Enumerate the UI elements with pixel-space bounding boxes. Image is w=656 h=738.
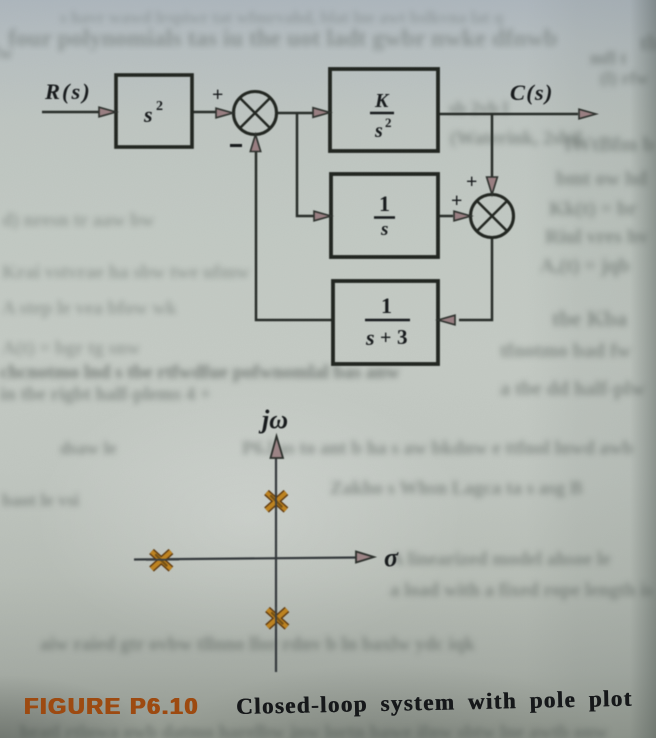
arrow into junction1 bottom (pointing up) [250,135,260,152]
svg-text:2: 2 [385,115,392,130]
svg-text:2: 2 [156,99,163,114]
wire junction1 to K/s2 with branch [276,112,316,115]
summing junction 2 [471,195,514,238]
svg-text:1: 1 [381,293,392,318]
arrow into 1/s [314,211,331,221]
pole plot [134,455,358,672]
pole X on jw axis lower [268,610,288,628]
arrow into junction1 left [216,108,233,118]
svg-text:1: 1 [379,191,390,216]
arrow C(s) output [579,109,596,119]
svg-text:s: s [374,120,383,142]
sigma axis horizontal [134,558,358,560]
svg-text:K: K [374,90,390,112]
block s2 [116,75,192,147]
block K/s2 [330,69,438,151]
wire s2 to junction1 [192,111,217,114]
minus sign junction1 [230,144,242,147]
caption figure number [24,693,199,720]
labels: block diagram text [44,79,554,350]
pole X on sigma axis [152,552,172,570]
caption text [236,686,633,720]
wire 1/s to junction2 [438,215,453,218]
arrowheads (dusty-rose fill) [99,107,596,325]
svg-text:3: 3 [397,325,408,349]
wire K/s2 to C(s) [438,113,578,116]
jw axis vertical [275,455,277,672]
svg-text:R(s): R(s) [44,79,92,104]
block 1/(s+3) [333,281,438,364]
svg-text:jω: jω [258,405,288,434]
wire junction2 down and left to 1/(s+3) [459,237,492,320]
summing junction 1 [234,92,277,135]
bleed-through text rows [60,8,503,28]
svg-text:+: + [212,84,223,106]
arrow into junction2 top [487,177,498,195]
arrowhead jw axis up [271,436,284,458]
svg-text:+: + [451,190,462,212]
arrowhead sigma axis right [356,552,374,563]
wire 1/(s+3) output left and up to junction1 [256,152,333,320]
arrow into 1/(s+3) right (pointing left) [438,315,455,325]
arrow into K/s2 [313,108,330,118]
block 1/s [331,174,438,257]
svg-text:s: s [380,219,388,240]
wire branch down to junction2 top [491,114,494,178]
dark smudges on poles [156,496,283,624]
wire branch down to 1/s [297,113,317,216]
svg-text:+: + [380,327,391,349]
arrow into s2 [99,107,116,117]
svg-text:s: s [143,102,153,127]
axis overlay across poles [146,490,276,629]
arrow into junction2 left [454,211,471,221]
svg-text:σ: σ [384,543,399,572]
svg-text:C(s): C(s) [510,80,554,105]
svg-text:s: s [365,325,375,350]
pole X on jw axis upper [267,493,287,511]
svg-text:+: + [466,171,477,193]
wire R(s) input [42,111,100,114]
